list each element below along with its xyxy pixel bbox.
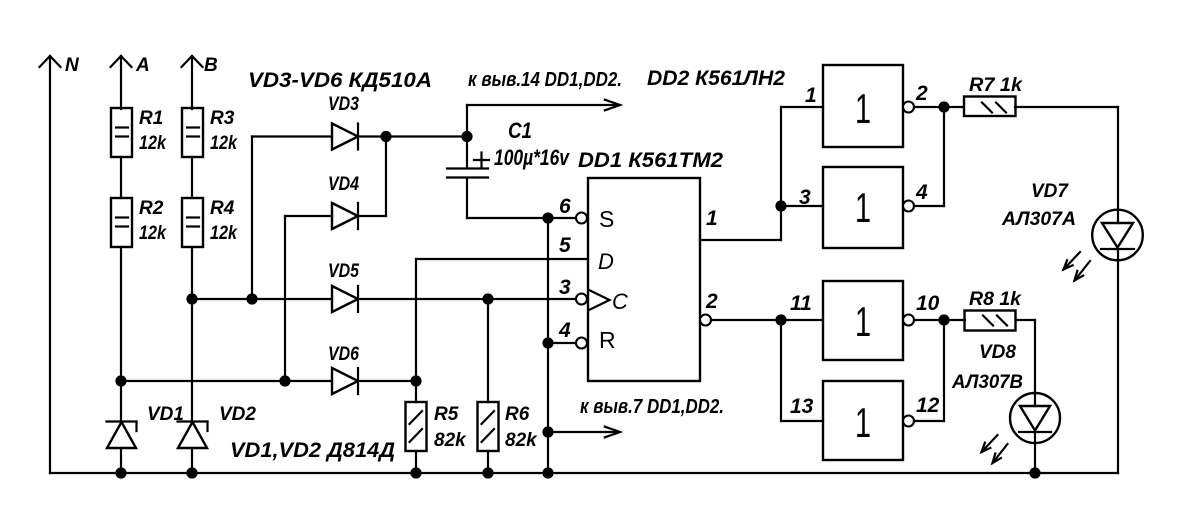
wire from VD3 row down to VD5 row: [251, 137, 253, 300]
diode VD5: [328, 261, 359, 312]
svg-text:АЛ307В: АЛ307В: [951, 372, 1023, 393]
diode VD4: [328, 174, 359, 229]
ground arrow to pin 7: [548, 396, 724, 437]
svg-text:100µ*16v: 100µ*16v: [494, 145, 570, 170]
resistor R8: [965, 289, 1023, 331]
junction rail-VD8: [1029, 467, 1040, 478]
svg-text:VD6: VD6: [328, 344, 359, 365]
inverter DD2.3: [823, 281, 903, 360]
wire VD7 to ground rail: [1117, 260, 1119, 473]
wire DD2.2 output up to pin2 node: [914, 107, 944, 206]
diode VD3: [328, 94, 359, 150]
svg-text:R3: R3: [210, 108, 235, 129]
wire R6 bottom: [487, 451, 489, 473]
svg-text:D: D: [598, 249, 614, 274]
wire R8 to VD8: [1016, 320, 1035, 406]
wire pin2 vertical to inverters 3,4: [780, 320, 782, 421]
svg-text:82k: 82k: [505, 430, 538, 451]
junction VD5-R6: [482, 293, 493, 304]
svg-text:VD3-VD6 КД510А: VD3-VD6 КД510А: [248, 69, 432, 92]
svg-text:12: 12: [916, 394, 940, 417]
svg-text:VD7: VD7: [1031, 181, 1069, 202]
wire D input: [416, 258, 588, 260]
svg-text:R2: R2: [139, 198, 164, 219]
svg-text:R1: R1: [139, 108, 163, 129]
svg-text:3: 3: [559, 276, 571, 299]
wire VD8 to ground rail: [1034, 443, 1036, 473]
svg-text:3: 3: [799, 186, 811, 209]
svg-text:10: 10: [916, 292, 940, 315]
svg-text:R8 1k: R8 1k: [969, 289, 1022, 310]
svg-text:82k: 82k: [434, 430, 467, 451]
svg-text:4: 4: [558, 319, 571, 342]
LED VD8: [951, 342, 1060, 463]
svg-text:VD8: VD8: [979, 342, 1016, 363]
pin 4 bubble R: [576, 338, 587, 349]
svg-text:5: 5: [559, 234, 571, 257]
ground rail wire: [50, 472, 1118, 474]
wire pin1 vertical to inverters 1,2: [780, 107, 782, 240]
wire into inverter U2.2: [781, 205, 823, 207]
wire VD5 row to C input: [192, 298, 576, 300]
svg-text:S: S: [599, 206, 614, 232]
wire VD4 row: [285, 215, 386, 217]
wire R5 bottom: [415, 451, 417, 473]
svg-text:N: N: [65, 55, 80, 76]
resistor R7: [964, 75, 1023, 116]
capacitor C1: [447, 118, 570, 218]
svg-text:R: R: [599, 327, 616, 353]
supply arrow to pin 14: [467, 69, 622, 137]
junction VD3 drop-VD5: [246, 293, 257, 304]
svg-text:VD3: VD3: [328, 94, 359, 115]
node N input arrow: [40, 55, 81, 473]
junction A-VD6: [115, 375, 126, 386]
inverter DD2.1: [823, 65, 903, 147]
junction R input: [542, 337, 553, 348]
diode VD6: [328, 344, 359, 394]
pin 6 bubble S: [576, 213, 587, 224]
junction B-VD5: [186, 293, 197, 304]
svg-text:12k: 12k: [210, 133, 238, 154]
svg-text:2: 2: [915, 82, 928, 105]
zener diode VD1: [107, 404, 184, 473]
resistor R3: [182, 108, 238, 157]
svg-text:1: 1: [855, 298, 871, 345]
junction VD6-R5-D: [410, 375, 421, 386]
wire R7 to VD7: [1015, 107, 1118, 223]
pin 2 bubble: [903, 102, 914, 113]
svg-text:1: 1: [805, 84, 817, 107]
junction pin10-R8: [938, 314, 949, 325]
svg-text:VD4: VD4: [328, 174, 359, 195]
svg-text:B: B: [204, 55, 218, 76]
junction VD4 drop-VD6: [279, 375, 290, 386]
junction rail-R5: [410, 467, 421, 478]
junction VD3-VD4: [380, 131, 391, 142]
svg-text:1: 1: [855, 85, 871, 132]
wire DD2.3 output: [914, 319, 965, 321]
junction rail-VD2: [186, 467, 197, 478]
resistor R2: [111, 198, 167, 247]
node B input arrow: [182, 55, 219, 109]
wire D vertical down to VD6/R5 junction: [415, 259, 417, 402]
svg-text:13: 13: [790, 395, 814, 418]
svg-text:11: 11: [790, 292, 812, 315]
wire A below R2 down to VD1: [120, 247, 122, 421]
svg-text:C: C: [612, 289, 628, 314]
zener diode VD2: [178, 404, 257, 473]
inverter DD2.2: [823, 167, 903, 248]
svg-text:12k: 12k: [139, 133, 167, 154]
svg-text:A: A: [135, 55, 150, 76]
D flip-flop DD1: [578, 149, 723, 381]
wire VD6 row: [121, 380, 416, 382]
svg-text:12k: 12k: [139, 223, 167, 244]
pin 12 bubble: [903, 416, 914, 427]
resistor R1: [111, 108, 167, 157]
svg-text:R5: R5: [434, 404, 459, 425]
wire B below R4 down to VD2: [191, 247, 193, 421]
svg-text:1: 1: [855, 399, 871, 446]
svg-text:C1: C1: [508, 118, 532, 143]
wire VD5 junction down to R6: [487, 299, 489, 402]
wire B between R3 and R4: [191, 157, 193, 198]
wire C1 bottom to S input: [467, 217, 576, 219]
junction pin7 arrow: [542, 426, 553, 437]
wire into inverter U2.1: [781, 106, 823, 108]
junction pin11 tee: [775, 314, 786, 325]
svg-text:DD2 К561ЛН2: DD2 К561ЛН2: [647, 67, 785, 90]
wire DD2.4 output up to pin10 node: [914, 320, 944, 421]
svg-text:R7 1k: R7 1k: [969, 75, 1023, 96]
svg-text:к выв.7 DD1,DD2.: к выв.7 DD1,DD2.: [580, 396, 724, 418]
svg-text:12k: 12k: [210, 223, 238, 244]
svg-text:VD1,VD2 Д814Д: VD1,VD2 Д814Д: [230, 439, 395, 462]
svg-text:6: 6: [559, 195, 571, 218]
inverter DD2.4: [823, 381, 903, 460]
junction VD3-C1: [461, 131, 472, 142]
junction pin3 tee: [775, 200, 786, 211]
pin 10 bubble: [903, 315, 914, 326]
resistor R4: [182, 198, 238, 247]
pin 2 bubble output: [700, 315, 711, 326]
svg-text:1: 1: [706, 207, 718, 230]
svg-text:к выв.14 DD1,DD2.: к выв.14 DD1,DD2.: [468, 69, 622, 91]
svg-text:R4: R4: [210, 198, 235, 219]
junction rail-SR: [542, 467, 553, 478]
junction pin2-R7: [938, 101, 949, 112]
wire from VD4 row down to VD6 row: [284, 216, 286, 381]
wire DD1 output pin 2 to inverter pin 11: [711, 319, 823, 321]
svg-text:VD2: VD2: [219, 404, 256, 425]
wire VD4 output up to VD3 junction: [385, 137, 387, 217]
wire S/R common vertical to ground rail: [547, 218, 549, 473]
svg-text:2: 2: [705, 290, 718, 313]
junction rail-R6: [482, 467, 493, 478]
junction rail-VD1: [115, 467, 126, 478]
wire VD3 row: [252, 135, 467, 137]
pin 4 bubble: [903, 201, 914, 212]
wire R input: [548, 342, 576, 344]
resistor R5: [406, 402, 468, 451]
pin 3 bubble C: [576, 294, 587, 305]
resistor R6: [478, 402, 539, 451]
wire DD1 output pin 1: [700, 239, 781, 241]
LED VD7: [1001, 181, 1143, 281]
svg-text:R6: R6: [505, 404, 530, 425]
svg-text:VD5: VD5: [328, 261, 359, 282]
wire A between R1 and R2: [120, 157, 122, 198]
wire DD2.1 output: [914, 106, 963, 108]
junction C1-S-ground: [542, 212, 553, 223]
svg-text:АЛ307А: АЛ307А: [1001, 209, 1076, 230]
svg-text:DD1 К561ТМ2: DD1 К561ТМ2: [578, 149, 723, 172]
svg-text:1: 1: [855, 184, 871, 231]
node A input arrow: [111, 55, 150, 109]
wire into inverter U2.4: [781, 420, 823, 422]
svg-text:4: 4: [915, 181, 928, 204]
